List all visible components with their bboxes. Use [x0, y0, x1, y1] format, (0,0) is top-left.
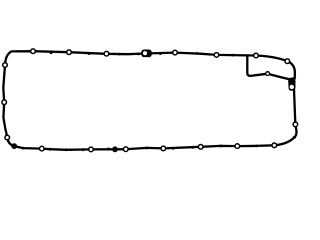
bolt hole left upper — [3, 63, 8, 68]
bolt hole right edge — [293, 122, 298, 127]
filled tab on top edge — [141, 50, 151, 58]
bolt hole bottom 1 — [272, 143, 277, 148]
rivet dot bottom f — [107, 148, 110, 151]
bolt hole top 2 — [67, 50, 72, 55]
bolt hole bottom 7 — [40, 146, 45, 151]
rivet dot bottom e — [145, 147, 148, 150]
rivet dot top f — [196, 52, 199, 55]
filled dowel bottom-middle — [112, 146, 118, 152]
rivet dot top a — [50, 51, 53, 54]
hole in top tab — [143, 51, 147, 55]
rivet dot top d — [137, 53, 140, 56]
bolt hole tab bottom — [266, 72, 270, 76]
filled corner lug top-right — [289, 78, 295, 91]
bolt hole bottom 5 — [124, 147, 129, 152]
rivet dot top c — [118, 53, 121, 56]
hole in corner lug — [290, 85, 294, 89]
gasket top-right tab outline — [247, 55, 295, 79]
bolt hole bottom 4 — [161, 146, 166, 151]
bolt hole bottom 2 — [235, 144, 240, 149]
bolt hole bottom-left corner — [5, 135, 10, 140]
bolt hole top 1 — [31, 49, 36, 54]
rivet dot bottom c — [191, 146, 194, 149]
rivet dot corner bottom-right — [293, 136, 296, 139]
bolt hole top 5 — [214, 53, 219, 58]
rivet dot bottom j — [22, 147, 25, 150]
gasket main outline loop — [3, 51, 296, 150]
bolt hole tab left — [254, 53, 259, 58]
rivet dot top b — [88, 52, 91, 55]
filled dowel bottom-left — [11, 143, 17, 149]
rivet dot bottom d — [172, 147, 175, 150]
rivet dot bottom i — [49, 148, 52, 151]
bolt hole top 3 — [104, 51, 109, 56]
rivet dot bottom b — [219, 145, 222, 148]
bolt hole left lower — [2, 100, 7, 105]
bolt hole top 4 — [173, 50, 178, 55]
rivet dot bottom a — [255, 145, 258, 148]
bolt hole bottom 3 — [198, 145, 203, 150]
bolt hole bottom 6 — [89, 147, 94, 152]
rivet dot top e — [159, 52, 162, 55]
bolt hole tab right — [285, 59, 290, 64]
rivet dot bottom h — [65, 148, 68, 151]
rivet dot bottom g — [82, 148, 85, 151]
rivet dot top g — [231, 54, 234, 57]
